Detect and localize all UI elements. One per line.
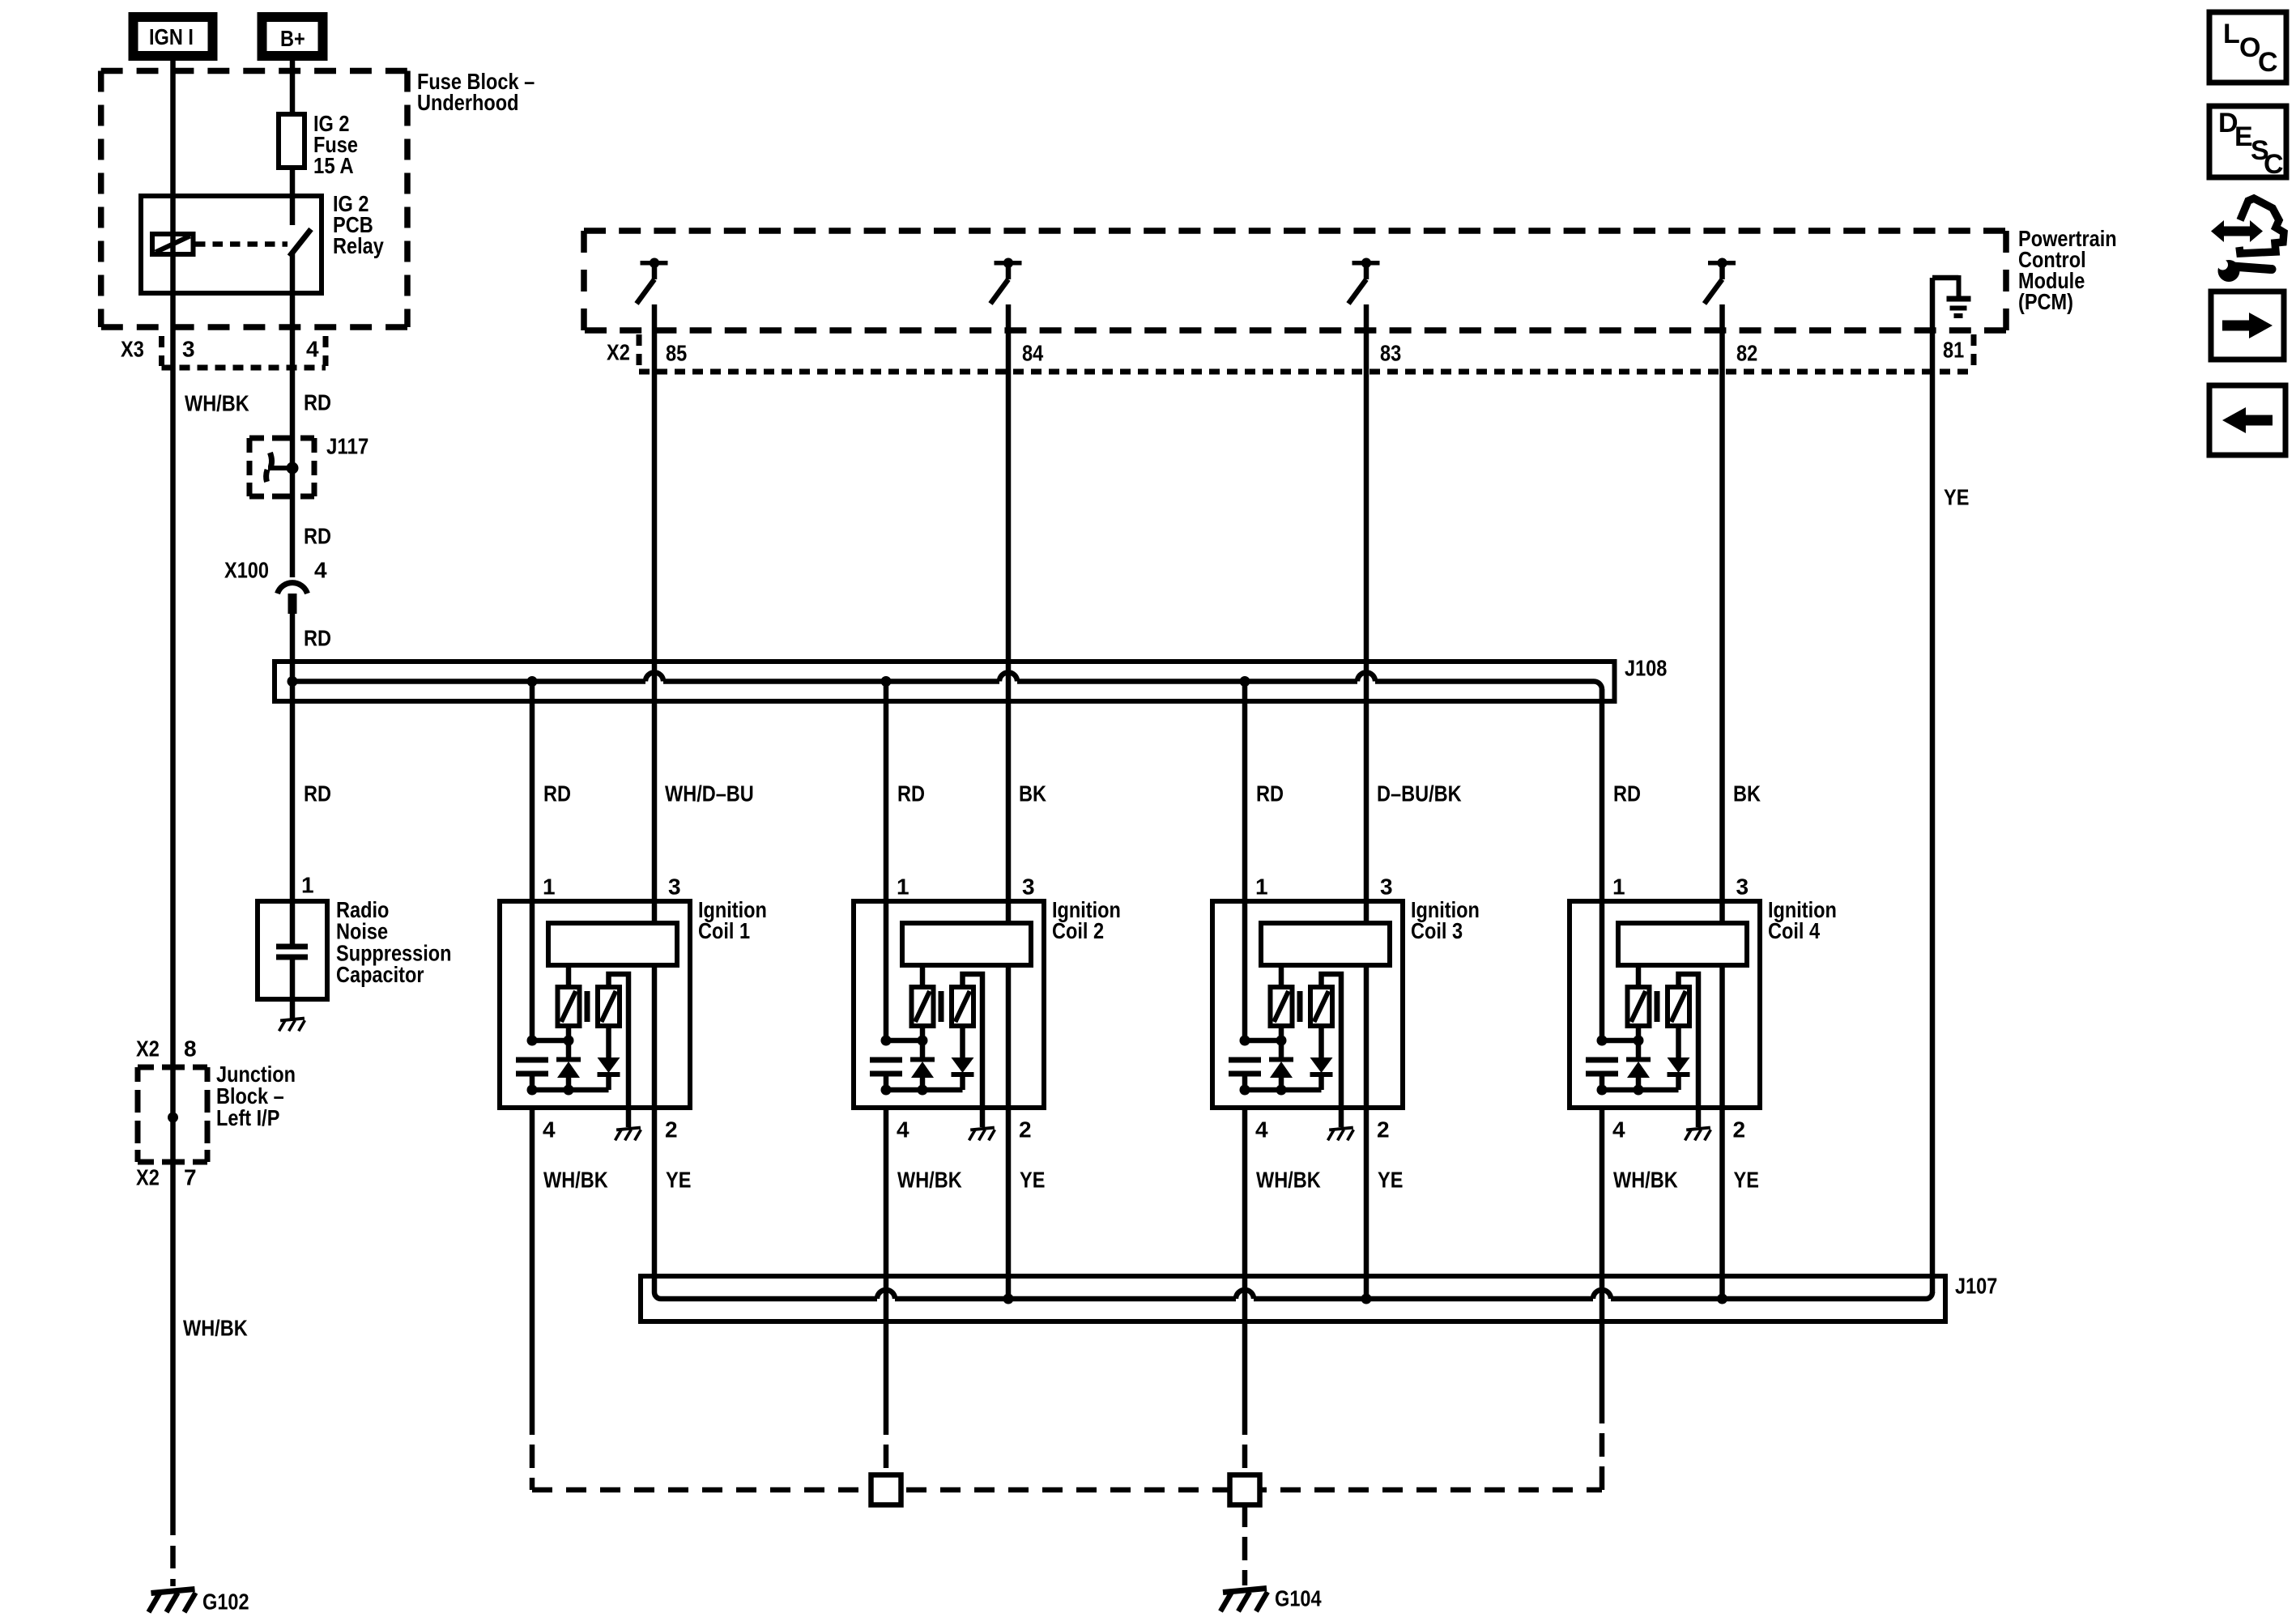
svg-text:4: 4 (1255, 1117, 1268, 1143)
power feed box B+ (262, 17, 323, 56)
ignition coil 2 box (854, 901, 1044, 1108)
svg-text:3: 3 (1380, 874, 1393, 900)
coil 2 diode right (960, 1026, 965, 1057)
wire RD X100 to J108 (290, 614, 296, 681)
coil 4 diode right (1676, 1026, 1681, 1057)
coil 3 capacitor (1229, 1057, 1261, 1063)
svg-text:1: 1 (301, 873, 314, 898)
dashed WH/BK wire to G102 (170, 1513, 176, 1586)
svg-text:4: 4 (1612, 1117, 1625, 1143)
coil 3 internal pin2 wire (1364, 965, 1370, 1108)
coil 1 winding resistor right (598, 987, 620, 1026)
coil 4 primary winding (1618, 923, 1747, 965)
coil 2 secondary wire to ground (963, 974, 983, 1127)
splice bus J107 outer box (641, 1276, 1945, 1321)
svg-text:J107: J107 (1955, 1274, 1997, 1299)
wire YE coil3 to J107 (1364, 1108, 1370, 1299)
J108 junction dot coil2 (881, 676, 892, 687)
icon jump with wrench (2224, 227, 2251, 236)
wire RD J108 to coil1 (530, 682, 535, 902)
coil 2 diode left (920, 1026, 926, 1059)
svg-text:L: L (2223, 19, 2240, 49)
svg-text:3: 3 (668, 874, 681, 900)
wire WH/BK coil1 down (530, 1108, 535, 1411)
svg-text:Capacitor: Capacitor (336, 962, 424, 987)
svg-text:WH/BK: WH/BK (185, 391, 249, 416)
svg-text:BK: BK (1019, 781, 1046, 806)
svg-text:BK: BK (1733, 781, 1761, 806)
coil 3 internal ground (1329, 1128, 1353, 1130)
splice J117 hook symbol (270, 453, 272, 466)
splice bus J108 outer box (275, 662, 1615, 701)
J108 junction dot coil1 (527, 676, 538, 687)
svg-text:WH/BK: WH/BK (897, 1168, 962, 1193)
svg-text:1: 1 (1612, 874, 1625, 900)
wire D-BU/BK pin83 to coil3 (1364, 304, 1370, 923)
icon box LOC (2209, 12, 2286, 83)
svg-text:4: 4 (306, 337, 319, 362)
svg-text:IGN I: IGN I (149, 24, 194, 49)
coil 4 internal ground (1686, 1128, 1710, 1130)
relay coil winding (152, 234, 194, 254)
wire RD J108 to coil4 (1600, 689, 1605, 901)
svg-text:8: 8 (184, 1036, 197, 1062)
svg-text:(PCM): (PCM) (2018, 289, 2073, 314)
svg-text:Coil 4: Coil 4 (1768, 918, 1820, 943)
wire fuse to relay contact (290, 165, 296, 225)
coil 1 internal pin1 wire (530, 901, 535, 1040)
svg-text:4: 4 (314, 558, 327, 583)
radio noise suppression capacitor box (258, 901, 327, 999)
coil 4 winding resistor right (1668, 987, 1689, 1026)
coil 2 winding resistor left (912, 987, 934, 1026)
svg-text:Relay: Relay (333, 233, 384, 258)
coil 2 internal pin2 wire (1006, 965, 1012, 1108)
ignition coil 3 box (1212, 901, 1403, 1108)
fuse block - underhood dashed box (101, 68, 407, 74)
coil 2 winding resistor right (952, 987, 973, 1026)
ground G102 (151, 1589, 195, 1594)
coil 3 diode right (1318, 1026, 1324, 1057)
svg-text:3: 3 (1022, 874, 1035, 900)
coil 1 internal ground (616, 1128, 641, 1130)
coil 1 winding resistor left (558, 987, 580, 1026)
wire WH/D-BU pin85 to coil1 (652, 304, 658, 923)
coil 1 internal pin2 wire (652, 965, 658, 1108)
connector X100 symbol (278, 583, 308, 594)
svg-text:2: 2 (1019, 1117, 1032, 1143)
coil 3 internal pin1 wire (1242, 901, 1248, 1040)
svg-text:81: 81 (1943, 338, 1964, 363)
svg-text:1: 1 (1255, 874, 1268, 900)
coil 1 secondary wire to ground (609, 974, 629, 1127)
J108 junction dot coil3 (1240, 676, 1250, 687)
relay IG 2 PCB box (141, 196, 322, 293)
coil 4 core bar (1655, 991, 1660, 1022)
svg-text:B+: B+ (280, 26, 305, 51)
coil 4 secondary wire to ground (1679, 974, 1699, 1127)
svg-text:X100: X100 (224, 558, 269, 583)
svg-text:D–BU/BK: D–BU/BK (1377, 781, 1462, 806)
PCM driver output pin 84 (995, 261, 1022, 266)
connector X3 row (159, 336, 164, 366)
splice bus J108 inner wire (292, 679, 645, 684)
svg-text:RD: RD (897, 781, 925, 806)
power feed box IGN I (134, 17, 213, 56)
svg-text:WH/BK: WH/BK (183, 1316, 248, 1341)
coil 1 diode right (606, 1026, 611, 1057)
junction block junction dot (168, 1113, 178, 1123)
svg-text:RD: RD (1613, 781, 1641, 806)
svg-text:J117: J117 (326, 434, 368, 459)
svg-text:WH/BK: WH/BK (1613, 1168, 1678, 1193)
svg-text:RD: RD (1256, 781, 1284, 806)
coil 2 primary winding (902, 923, 1031, 965)
wire YE PCM pin 81 down (1930, 278, 1936, 1293)
svg-text:7: 7 (184, 1165, 197, 1190)
coil 2 link wires and dots (886, 1038, 922, 1044)
ignition coil 4 box (1570, 901, 1760, 1108)
wire WH/BK coil4 down (1600, 1108, 1605, 1411)
wire YE coil4 to J107 (1719, 1108, 1725, 1299)
splice J117 dashed box (249, 436, 264, 441)
coil 3 diode left (1279, 1026, 1284, 1059)
wire RD J108 to coil3 (1242, 682, 1248, 902)
svg-text:Left I/P: Left I/P (216, 1105, 279, 1130)
wire BK pin84 to coil2 (1006, 304, 1012, 923)
svg-text:X2: X2 (136, 1165, 160, 1190)
svg-text:RD: RD (304, 781, 331, 806)
wire WH/BK coil2 down (884, 1108, 889, 1411)
PCM driver output pin 82 (1708, 261, 1736, 266)
svg-text:15 A: 15 A (313, 153, 354, 178)
relay switch blade (290, 229, 312, 257)
icon arrow right (2211, 291, 2284, 360)
svg-text:C: C (2258, 47, 2278, 78)
svg-text:1: 1 (543, 874, 556, 900)
J107 junction dot coil3 (1361, 1294, 1372, 1304)
coil 3 link wires and dots (1245, 1038, 1281, 1044)
coil 4 link wires and dots (1602, 1038, 1638, 1044)
coil 1 link wires and dots (532, 1038, 569, 1044)
svg-text:4: 4 (543, 1117, 556, 1143)
svg-text:Underhood: Underhood (417, 90, 519, 115)
coil 2 internal pin1 wire (884, 901, 889, 1040)
splice bus J107 inner wire (661, 1296, 877, 1302)
J107 junction dot coil2 (1003, 1294, 1014, 1304)
wire RD J108 to coil2 (884, 682, 889, 902)
coil 2 capacitor (870, 1057, 902, 1063)
PCM internal ground for pin 81 (1932, 275, 1959, 281)
svg-text:1: 1 (897, 874, 909, 900)
svg-text:2: 2 (1377, 1117, 1390, 1143)
svg-text:WH/BK: WH/BK (543, 1168, 608, 1193)
PCM driver output pin 83 (1352, 261, 1380, 266)
svg-text:X2: X2 (136, 1036, 160, 1062)
svg-text:X3: X3 (121, 337, 144, 362)
coil 1 diode left (566, 1026, 572, 1059)
coil 3 core bar (1297, 991, 1303, 1022)
coil 4 diode left (1636, 1026, 1642, 1059)
coil 1 primary winding (548, 923, 677, 965)
coil 4 internal pin1 wire (1600, 901, 1605, 1040)
wire RD J108 to radio capacitor (290, 682, 296, 904)
coil 4 winding resistor left (1628, 987, 1650, 1026)
svg-text:YE: YE (666, 1168, 691, 1193)
icon box DESC (2209, 106, 2286, 177)
svg-text:2: 2 (1733, 1117, 1746, 1143)
PCM driver output pin 85 (641, 261, 668, 266)
coil 1 core bar (585, 991, 590, 1022)
svg-text:J108: J108 (1625, 656, 1667, 681)
svg-text:RD: RD (543, 781, 571, 806)
PCM dashed box (584, 228, 2006, 234)
coil 4 capacitor (1586, 1057, 1618, 1063)
svg-text:G102: G102 (202, 1589, 249, 1615)
svg-text:X2: X2 (607, 340, 630, 365)
svg-text:RD: RD (304, 390, 331, 415)
coil 4 internal pin2 wire (1719, 965, 1725, 1108)
coil 3 secondary wire to ground (1322, 974, 1342, 1127)
wire WH/BK coil3 down (1242, 1108, 1248, 1411)
svg-text:RD: RD (304, 626, 331, 651)
svg-text:4: 4 (897, 1117, 909, 1143)
svg-text:3: 3 (1736, 874, 1749, 900)
J107 junction dot coil4 (1717, 1294, 1727, 1304)
svg-text:WH/BK: WH/BK (1256, 1168, 1321, 1193)
svg-text:Coil 3: Coil 3 (1411, 918, 1463, 943)
wire relay output RD (290, 253, 296, 577)
fuse IG 2 15 A (279, 114, 305, 168)
radio capacitor plates (290, 901, 296, 944)
svg-text:YE: YE (1378, 1168, 1403, 1193)
coil 3 winding resistor left (1271, 987, 1293, 1026)
coil 3 primary winding (1261, 923, 1390, 965)
svg-text:Coil 2: Coil 2 (1052, 918, 1104, 943)
radio capacitor ground (280, 1019, 305, 1021)
wire IGN I feed (WH/BK vertical) (170, 56, 176, 1513)
wire YE coil2 to J107 (1006, 1108, 1012, 1299)
wire BK pin82 to coil4 (1719, 304, 1725, 923)
svg-text:84: 84 (1022, 341, 1044, 366)
dashed ground wire net (530, 1411, 535, 1490)
ground G104 (1223, 1589, 1267, 1593)
svg-text:C: C (2264, 149, 2284, 180)
svg-text:YE: YE (1734, 1168, 1759, 1193)
svg-text:WH/D–BU: WH/D–BU (665, 781, 754, 806)
splice square coil2 ground (871, 1475, 901, 1505)
svg-text:2: 2 (665, 1117, 678, 1143)
junction block left I/P dashed box (138, 1065, 154, 1070)
svg-text:RD: RD (304, 524, 331, 549)
wire YE coil1 to J107 (654, 1108, 661, 1299)
svg-text:G104: G104 (1275, 1586, 1322, 1611)
connector X2 row under PCM (637, 334, 642, 368)
svg-text:YE: YE (1020, 1168, 1045, 1193)
icon arrow left (2209, 385, 2285, 455)
svg-text:85: 85 (666, 341, 687, 366)
wire B+ to fuse (290, 56, 296, 117)
svg-text:YE: YE (1944, 485, 1969, 510)
coil 3 winding resistor right (1310, 987, 1332, 1026)
coil 2 internal ground (970, 1128, 995, 1130)
relay actuation dashed link (195, 241, 288, 247)
svg-text:83: 83 (1380, 341, 1401, 366)
ignition coil 1 box (500, 901, 690, 1108)
splice J117 junction dot (287, 462, 299, 474)
coil 2 core bar (939, 991, 944, 1022)
svg-text:3: 3 (182, 337, 195, 362)
coil 1 capacitor (516, 1057, 548, 1063)
J108 junction dot RD feed (288, 676, 298, 687)
svg-text:Coil 1: Coil 1 (698, 918, 750, 943)
splice square coil3 ground (1230, 1475, 1260, 1505)
svg-text:82: 82 (1736, 341, 1757, 366)
